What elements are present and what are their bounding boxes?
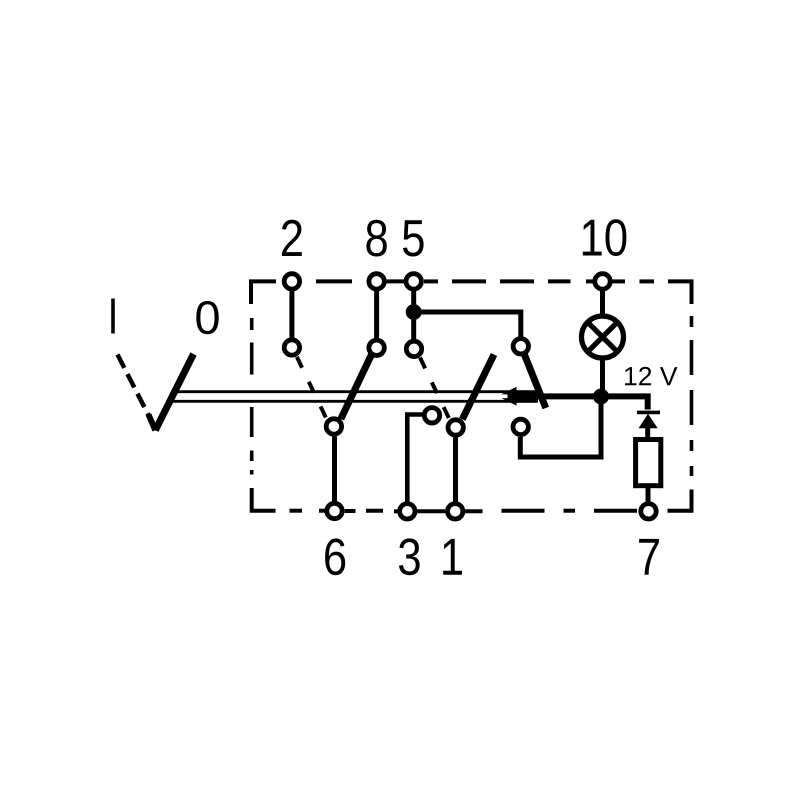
- lever V piece: [149, 415, 156, 431]
- diode V1 cathode bar: [637, 411, 660, 415]
- terminal 6 circle: [327, 503, 342, 518]
- label 5: [403, 220, 424, 256]
- wire terminal 10 to lamp: [600, 291, 605, 315]
- wire terminal 8: [374, 291, 379, 339]
- contact A circle (terminal 3 branch): [424, 408, 439, 423]
- label 7: [639, 539, 659, 575]
- switch arm 1 (6-8 closed): [341, 353, 373, 420]
- border right chain line: [690, 316, 694, 476]
- wire lamp to 12V node: [600, 359, 605, 397]
- wire terminal 5: [411, 291, 416, 340]
- terminal 3 circle: [400, 504, 415, 519]
- contact 2 lower circle: [284, 340, 299, 355]
- contact top circle (node 5 branch): [513, 339, 528, 354]
- switch arm 3 (hanging): [524, 354, 546, 409]
- label 8: [366, 220, 386, 257]
- contact B circle (below arm 3): [513, 419, 528, 434]
- wire terminal 3 up to contact A: [407, 415, 423, 503]
- lamp L1: [582, 316, 624, 358]
- wire diode to resistor: [645, 428, 650, 441]
- junction dot 12V node: [593, 389, 609, 405]
- terminal 7 circle: [641, 504, 656, 519]
- contact 5 lower circle: [406, 341, 421, 356]
- terminal 2 circle: [284, 274, 299, 289]
- arrow head: [498, 387, 517, 406]
- actuator bar double line: [171, 390, 538, 393]
- wire pivot2 to terminal 1: [453, 438, 458, 502]
- wire node5 to contact top: [414, 312, 521, 337]
- pivot 1 circle: [326, 419, 341, 434]
- dashed alt position 2 to pivot1: [297, 357, 327, 419]
- label 6: [325, 538, 345, 575]
- wire terminal 2: [289, 291, 294, 338]
- contact 8 lower circle: [369, 340, 384, 355]
- label 1: [443, 539, 462, 575]
- terminal 10 circle: [595, 274, 610, 289]
- label 12 V: [625, 367, 677, 386]
- label 10: [583, 219, 627, 256]
- terminal 8 circle: [369, 274, 384, 289]
- label 0: [196, 301, 218, 334]
- junction dot node 5: [406, 304, 422, 320]
- pivot 2 circle: [448, 420, 463, 435]
- lever position 0: [155, 354, 193, 430]
- border bottom chain line: [252, 488, 692, 511]
- label 3: [399, 538, 420, 575]
- diode V1 triangle: [639, 414, 658, 429]
- label I (position symbol): [111, 299, 115, 334]
- border top chain line: [251, 281, 692, 304]
- main 12V wire: [508, 396, 648, 409]
- wire pivot1 to terminal 6: [332, 437, 337, 502]
- resistor R1: [636, 440, 661, 486]
- wire 12V node down-left loop to contact: [520, 397, 601, 458]
- label 2: [282, 220, 302, 256]
- terminal 5 circle: [406, 274, 421, 289]
- wire band arrow to arm3: [516, 390, 538, 402]
- wire resistor to terminal 7: [646, 488, 651, 503]
- dashed lever position I: [118, 355, 156, 429]
- terminal 1 circle: [448, 504, 463, 519]
- border left chain line: [250, 318, 254, 475]
- switch arm 2 (open): [462, 355, 494, 420]
- dashed alt position 5 to pivot2: [420, 358, 450, 420]
